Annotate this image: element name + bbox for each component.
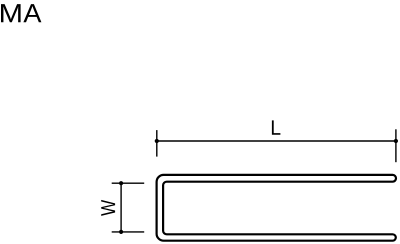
dimension L: extension line right xyxy=(395,129,397,162)
profile outline (U-channel, open right) xyxy=(157,175,396,241)
dimension W: extension line top xyxy=(112,182,145,184)
dimension L: dot terminator right xyxy=(394,139,398,143)
dimension L: extension line left xyxy=(156,130,158,157)
label MA xyxy=(1,4,41,22)
dimension W: label W (rotated) xyxy=(101,200,115,216)
dimension W: dimension line xyxy=(120,183,122,232)
dimension L: dot terminator left xyxy=(155,139,159,143)
dimension W: dot terminator bottom xyxy=(119,230,123,234)
dimension L: label L xyxy=(272,120,281,134)
dimension W: dot terminator top xyxy=(119,181,123,185)
dimension L: dimension line xyxy=(157,140,396,142)
dimension W: extension line bottom xyxy=(112,231,145,233)
